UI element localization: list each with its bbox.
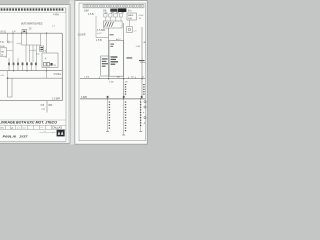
wire B lower (with color code column) [123, 79, 125, 99]
svg-text:1.5 B/R: 1.5 B/R [78, 34, 86, 37]
wire K to module [46, 71, 48, 79]
svg-text:MAIN: MAIN [128, 14, 134, 17]
page seam light gap [70, 0, 76, 144]
wire E with code column [123, 99, 125, 135]
spark unit top pin labels [110, 44, 114, 45]
connector strip (top terminal row, right page) [83, 4, 144, 8]
right column text [126, 57, 132, 58]
relay contacts dark cluster [44, 62, 47, 66]
svg-text:P60L/6 2/37: P60L/6 2/37 [3, 134, 28, 138]
small link wire [29, 50, 33, 52]
wire from relay B to node 13 [7, 50, 13, 52]
relay box left B [0, 48, 7, 56]
wire E terminal mark above bus [123, 96, 125, 98]
svg-text:30A: 30A [128, 17, 132, 20]
svg-text:1.5 B: 1.5 B [96, 39, 102, 42]
title table row [0, 125, 66, 129]
left page inner border right [65, 8, 67, 142]
main vertical wire C [141, 27, 143, 79]
wire terminals at ends [106, 131, 109, 133]
ignition switch box (hatched) [104, 21, 123, 28]
svg-text:LINKAGE BOTH EXC MOT. JTECO: LINKAGE BOTH EXC MOT. JTECO [0, 121, 57, 125]
right page inner border [79, 3, 145, 141]
wire horizontal mid [96, 37, 109, 39]
logo mark [57, 130, 65, 137]
svg-text:1.5 R/B: 1.5 R/B [97, 29, 105, 32]
small box left of spark unit [101, 56, 109, 76]
junction dots bus B [107, 98, 108, 99]
fuse labels [111, 11, 114, 14]
pin label under hatch box [110, 34, 114, 35]
svg-text:B/R: B/R [49, 105, 53, 107]
wire drops from bus 1 [7, 33, 9, 41]
svg-text:(a5): (a5) [36, 54, 40, 56]
svg-text:4 RH: 4 RH [139, 15, 144, 17]
left page inner border bottom [0, 140, 66, 142]
svg-text:n-12: n-12 [97, 33, 102, 35]
svg-text:0.5B: 0.5B [109, 81, 114, 83]
svg-text:n.B: n.B [0, 75, 4, 77]
svg-text:1.5 B: 1.5 B [88, 13, 94, 16]
fuse F1 on bus [22, 30, 27, 33]
bus wire 2 [0, 70, 62, 72]
junction dot [7, 77, 9, 79]
spark unit box (tall) [109, 41, 124, 77]
title block top rule [0, 119, 66, 121]
svg-text:a) a): a) a) [17, 43, 22, 45]
wire MAIN box to fuse holder [129, 20, 131, 27]
diode module D1 [40, 46, 44, 51]
branch drops [25, 45, 27, 62]
wire from relay A to node 13 [9, 41, 13, 43]
regulator box right [127, 13, 136, 20]
bus A (right page) [80, 78, 145, 80]
junction dots on bus 2 [13, 70, 14, 71]
left page (schematic sheet 1) [0, 5, 70, 144]
branch wire [22, 44, 41, 46]
fuse drop wires [105, 17, 121, 21]
bottom long wire [0, 100, 62, 102]
svg-text:5.0B: 5.0B [103, 12, 108, 14]
svg-text:T.N: T.N [0, 41, 4, 44]
relay K box [42, 53, 58, 67]
connector strip (top terminal row, left page) [0, 8, 66, 13]
battery feed wire D with code column [107, 99, 109, 132]
bus wire 1 (main horizontal) [0, 32, 62, 34]
wire right vertical main [61, 33, 63, 100]
background desk [0, 0, 150, 150]
svg-text:1.5B: 1.5B [136, 46, 141, 48]
fuse holder symbol [127, 27, 133, 33]
indicator lamp symbols right [144, 101, 146, 103]
wire D terminal mark above bus [107, 96, 109, 98]
svg-text:1.5 B/R: 1.5 B/R [52, 98, 60, 101]
module box left edge with notch [8, 78, 13, 97]
junction dots bus A [108, 78, 109, 79]
svg-text:4 B/R: 4 B/R [81, 96, 87, 99]
wire C lower (with color code column) [141, 79, 143, 99]
tick stubs on bus A [100, 77, 136, 79]
wire to right border [140, 61, 145, 63]
svg-text:a5): a5) [33, 50, 36, 52]
bus B (right page) [80, 98, 145, 100]
svg-text:1.5 B: 1.5 B [84, 77, 90, 79]
wire F with code column [140, 99, 142, 132]
svg-text:2.5 B/L: 2.5 B/L [54, 73, 62, 76]
module box outline top [8, 77, 63, 79]
svg-text:(MUTE VIBRATION) PIECE: (MUTE VIBRATION) PIECE [21, 21, 43, 25]
svg-text:4 RH: 4 RH [53, 13, 59, 17]
spark unit label lines [111, 56, 118, 57]
wire F terminal mark above bus [141, 96, 143, 98]
main vertical wire A [108, 28, 110, 79]
svg-text:18M: 18M [84, 10, 89, 13]
header dark part block [110, 9, 117, 12]
connector row link wires [9, 58, 36, 71]
junction dots bus 1 [12, 33, 13, 34]
svg-text:GN: GN [1, 51, 5, 53]
main vertical wire B [123, 23, 125, 79]
connector pair symbols row [8, 63, 37, 66]
wire vertical from header [95, 16, 97, 38]
wire bus2 to module [7, 71, 9, 79]
connector C below [46, 101, 48, 113]
wire K box to bus 2 [46, 67, 48, 70]
svg-text:CALLAS: CALLAS [52, 126, 62, 130]
